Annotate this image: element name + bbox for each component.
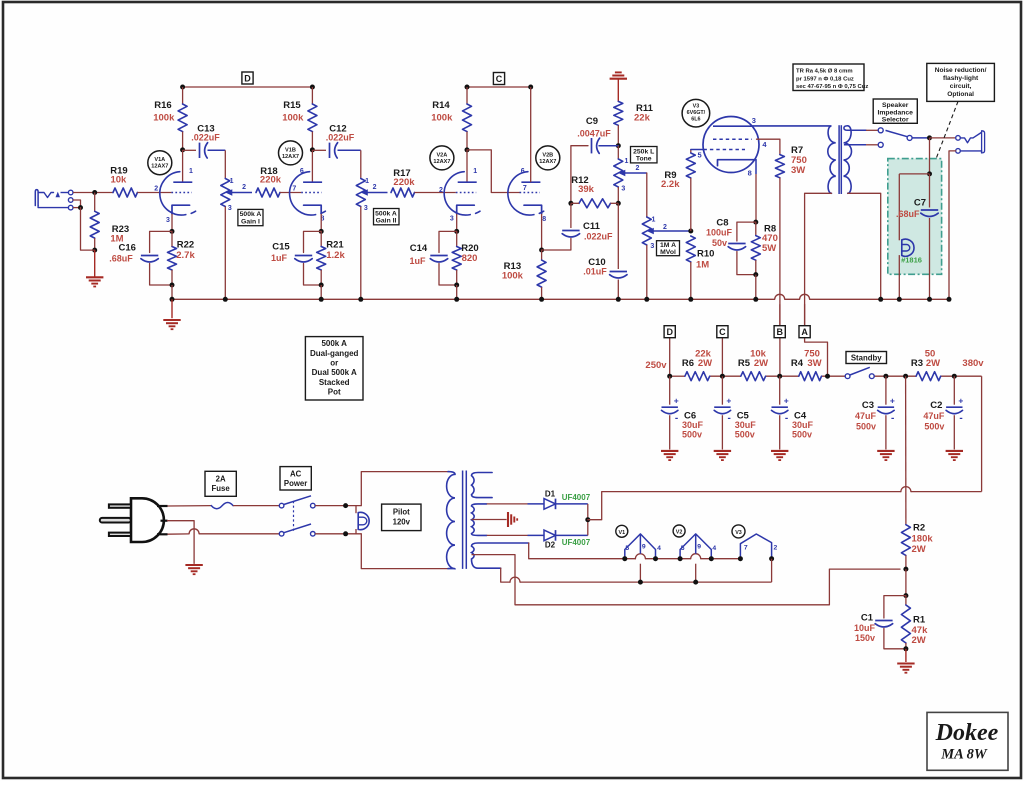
resistor R23 bbox=[94, 193, 96, 212]
resistor R12 bbox=[579, 199, 611, 208]
svg-text:500v: 500v bbox=[856, 422, 876, 432]
capacitor C12 bbox=[312, 149, 326, 151]
resistor R8 bbox=[755, 222, 757, 236]
svg-text:12AX7: 12AX7 bbox=[282, 154, 299, 160]
svg-text:3: 3 bbox=[364, 205, 368, 212]
label box Tone bbox=[631, 147, 658, 163]
transformer T2 core bbox=[838, 125, 840, 194]
wire B+ feed bbox=[588, 492, 901, 520]
wire D1 cathode to node bbox=[587, 504, 589, 520]
svg-text:C16: C16 bbox=[118, 243, 135, 254]
svg-text:Speaker: Speaker bbox=[882, 102, 909, 109]
node R22 bottom bbox=[170, 283, 175, 288]
node rectifier output bbox=[585, 517, 590, 522]
wire heater bottom lead to lower line bbox=[501, 568, 510, 582]
potentiometer 500k Gain II bbox=[356, 179, 365, 207]
switch AC power lower pole bbox=[279, 532, 284, 537]
svg-text:500k A: 500k A bbox=[375, 210, 397, 217]
node C7 lamp junction bbox=[927, 171, 932, 176]
svg-text:Dokee: Dokee bbox=[935, 720, 999, 746]
wire C7 column top bbox=[929, 138, 931, 174]
wire OT secondary return to bus bbox=[848, 193, 881, 299]
lamp 1816 bulb bbox=[902, 239, 914, 256]
node MVol wiper junction bbox=[688, 229, 693, 234]
node A label box bbox=[799, 326, 810, 338]
wire node B riser bbox=[779, 304, 781, 376]
node R8 bottom bbox=[753, 272, 758, 277]
svg-text:150v: 150v bbox=[855, 633, 875, 643]
svg-text:6L6: 6L6 bbox=[691, 117, 700, 123]
node R23 bottom bbox=[92, 248, 97, 253]
label box Pilot bbox=[382, 504, 421, 530]
svg-text:D2: D2 bbox=[545, 541, 556, 550]
svg-text:+: + bbox=[674, 396, 679, 406]
wire Tone wiper to MVol bbox=[646, 173, 648, 217]
svg-text:8: 8 bbox=[748, 169, 752, 178]
node R1 bottom bbox=[903, 646, 908, 651]
node C top-right bbox=[528, 85, 533, 90]
wire C rail bbox=[467, 86, 531, 88]
svg-text:30uF: 30uF bbox=[792, 420, 814, 430]
wire OT secondary top lead bbox=[844, 126, 866, 131]
svg-text:Pot: Pot bbox=[328, 387, 341, 396]
svg-text:V1: V1 bbox=[619, 530, 626, 536]
svg-text:1: 1 bbox=[189, 168, 193, 175]
label box title Dokee bbox=[927, 712, 1008, 770]
wire plug ground prong bbox=[168, 521, 195, 564]
svg-text:2: 2 bbox=[663, 224, 667, 231]
wire V3 grid to R9 bbox=[691, 149, 704, 151]
ground HV center tap bbox=[507, 512, 509, 527]
output jack sleeve contact bbox=[956, 149, 961, 154]
svg-text:2.7k: 2.7k bbox=[176, 250, 195, 261]
wire R7 to node B bbox=[779, 178, 781, 325]
svg-text:.01uF: .01uF bbox=[583, 266, 607, 276]
svg-text:2W: 2W bbox=[912, 635, 926, 646]
resistor R10 bbox=[686, 236, 695, 262]
node C label box bbox=[493, 73, 504, 85]
label box AC Power bbox=[280, 467, 311, 490]
wire V3 cathode down bbox=[755, 160, 757, 174]
svg-text:2: 2 bbox=[439, 187, 443, 194]
node V1B plate junction bbox=[310, 147, 315, 152]
svg-text:2A: 2A bbox=[216, 475, 226, 484]
svg-text:2: 2 bbox=[154, 186, 158, 193]
svg-text:D: D bbox=[666, 327, 673, 337]
resistor R17 bbox=[391, 188, 415, 197]
wire preamp ground bus bbox=[172, 298, 775, 300]
node bus junctions bbox=[170, 297, 175, 302]
svg-text:V2: V2 bbox=[676, 530, 683, 536]
node D label box bbox=[242, 72, 253, 84]
tube V1A triode bbox=[160, 172, 186, 215]
wire tip to input node bbox=[73, 192, 113, 194]
svg-text:100k: 100k bbox=[502, 271, 524, 282]
switch selector tap 4ohm bbox=[878, 142, 883, 147]
wire plug neutral with hop bbox=[168, 533, 190, 535]
heater V1 tent bbox=[625, 534, 656, 559]
wire rail to R2 bbox=[905, 376, 907, 525]
svg-text:500k A: 500k A bbox=[321, 339, 347, 348]
switch Standby bbox=[845, 374, 850, 379]
label box dual-ganged pot note bbox=[305, 337, 363, 400]
ground bus main bbox=[171, 299, 173, 318]
svg-text:.022uF: .022uF bbox=[326, 133, 355, 143]
capacitor C8 bbox=[737, 222, 756, 241]
svg-text:flashy-light: flashy-light bbox=[943, 75, 979, 82]
svg-text:2: 2 bbox=[242, 184, 246, 191]
tube V2B triode bbox=[508, 172, 534, 215]
svg-text:3: 3 bbox=[166, 217, 170, 224]
svg-text:Noise reduction/: Noise reduction/ bbox=[935, 67, 987, 74]
svg-text:1: 1 bbox=[473, 168, 477, 175]
wire ring to sleeve bbox=[73, 200, 81, 208]
wire to output jack bbox=[930, 137, 956, 139]
node R12 right junction bbox=[616, 201, 621, 206]
svg-text:R14: R14 bbox=[432, 100, 450, 111]
svg-text:180k: 180k bbox=[912, 534, 934, 545]
wire OT primary bottom to node A bbox=[805, 193, 832, 325]
ground R11 top bbox=[610, 78, 627, 80]
svg-text:C: C bbox=[719, 327, 726, 337]
svg-text:D: D bbox=[244, 73, 251, 83]
input jack J1 bbox=[35, 190, 38, 206]
svg-text:47uF: 47uF bbox=[855, 411, 877, 421]
svg-text:-: - bbox=[891, 413, 894, 424]
lamp pilot bbox=[355, 506, 357, 514]
svg-text:500v: 500v bbox=[924, 422, 944, 432]
capacitor C16 bbox=[150, 231, 172, 252]
svg-text:7: 7 bbox=[523, 185, 527, 192]
svg-text:500v: 500v bbox=[792, 430, 812, 440]
wire to PT primary bottom bbox=[361, 534, 448, 569]
svg-text:MVol: MVol bbox=[660, 249, 676, 256]
svg-text:V1A: V1A bbox=[154, 157, 165, 163]
wire V2A cathode down bbox=[456, 214, 458, 232]
resistor R1 bbox=[905, 596, 907, 605]
node C1 R1 top bbox=[903, 593, 908, 598]
resistor R11 bbox=[614, 101, 623, 125]
svg-text:.68uF: .68uF bbox=[896, 209, 920, 219]
node pilot top bbox=[343, 503, 348, 508]
svg-text:R16: R16 bbox=[154, 100, 171, 111]
svg-text:Impedance: Impedance bbox=[877, 109, 913, 116]
wire C13 to Gain I pot bbox=[224, 150, 226, 178]
wire node D riser bbox=[669, 338, 671, 377]
resistor R2 bbox=[901, 525, 910, 556]
svg-text:Tone: Tone bbox=[636, 156, 652, 163]
node C label box lower bbox=[717, 326, 728, 338]
label box Gain I bbox=[238, 209, 263, 225]
tube V3 6V6 bbox=[703, 117, 759, 173]
svg-text:R6: R6 bbox=[682, 358, 694, 369]
fuse F1 2A bbox=[211, 503, 233, 509]
svg-text:3: 3 bbox=[450, 216, 454, 223]
wire V1A cathode down bbox=[171, 214, 173, 232]
node jack ground junction bbox=[78, 205, 83, 210]
svg-text:1.2k: 1.2k bbox=[326, 250, 345, 261]
node B label box bbox=[774, 326, 785, 338]
tube V2A triode bbox=[444, 172, 470, 215]
resistor R4 bbox=[799, 372, 822, 381]
svg-text:50v: 50v bbox=[712, 238, 727, 248]
svg-text:30uF: 30uF bbox=[682, 420, 704, 430]
switch AC power link bbox=[293, 501, 295, 531]
switch selector common bbox=[907, 135, 912, 140]
svg-text:1M A: 1M A bbox=[660, 242, 676, 249]
transformer T1 core bbox=[462, 471, 464, 569]
svg-text:.022uF: .022uF bbox=[191, 133, 220, 143]
svg-text:circuit,: circuit, bbox=[950, 83, 972, 90]
svg-text:+: + bbox=[958, 396, 963, 406]
svg-text:C7: C7 bbox=[914, 198, 926, 209]
svg-text:V2B: V2B bbox=[542, 152, 553, 158]
ground input bbox=[94, 250, 96, 277]
svg-text:47uF: 47uF bbox=[923, 411, 945, 421]
wire R19 to V1A grid bbox=[137, 192, 171, 194]
svg-text:820: 820 bbox=[462, 253, 478, 264]
capacitor C7 bbox=[929, 174, 931, 208]
node V1B cathode junction bbox=[319, 229, 324, 234]
node C top-left bbox=[465, 85, 470, 90]
switch selector tap 8ohm bbox=[878, 128, 883, 133]
switch AC power upper pole bbox=[279, 503, 284, 508]
teal optional region bbox=[888, 159, 942, 275]
svg-text:C9: C9 bbox=[586, 116, 598, 127]
svg-text:3W: 3W bbox=[791, 165, 805, 176]
node V2A cathode junction bbox=[454, 229, 459, 234]
node V1A plate junction bbox=[180, 147, 185, 152]
svg-text:Dual-ganged: Dual-ganged bbox=[310, 349, 359, 358]
input jack tip contact bbox=[68, 190, 73, 195]
output jack tip contact bbox=[956, 136, 961, 141]
svg-text:or: or bbox=[330, 359, 338, 368]
wire to PT primary top bbox=[361, 472, 448, 506]
capacitor C2 bbox=[953, 376, 955, 405]
node R2 bottom bbox=[903, 567, 908, 572]
node output node bbox=[927, 135, 932, 140]
svg-text:10k: 10k bbox=[110, 175, 127, 186]
svg-text:2.2k: 2.2k bbox=[661, 179, 680, 190]
svg-text:D1: D1 bbox=[545, 490, 556, 499]
svg-text:100k: 100k bbox=[282, 113, 304, 124]
resistor R15 bbox=[311, 87, 313, 104]
svg-text:-: - bbox=[675, 413, 678, 424]
svg-text:V2A: V2A bbox=[436, 152, 447, 158]
svg-text:R4: R4 bbox=[791, 358, 804, 369]
capacitor C10 bbox=[617, 203, 619, 269]
resistor R18 bbox=[256, 188, 280, 197]
svg-text:C2: C2 bbox=[930, 400, 942, 411]
wire V1B cathode down bbox=[320, 214, 322, 232]
svg-text:9: 9 bbox=[697, 543, 701, 550]
svg-text:2W: 2W bbox=[698, 358, 712, 369]
node D label box lower bbox=[664, 326, 675, 338]
node R20 bottom bbox=[454, 283, 459, 288]
resistor R7 bbox=[775, 155, 784, 178]
svg-text:380v: 380v bbox=[962, 358, 984, 369]
svg-text:+: + bbox=[726, 396, 731, 406]
svg-text:12AX7: 12AX7 bbox=[151, 164, 168, 170]
wire V2A plate to V2B grid direct coupling bbox=[467, 150, 520, 193]
svg-text:UF4007: UF4007 bbox=[562, 538, 591, 547]
label box Noise reduction optional bbox=[927, 63, 995, 101]
wire OT secondary mid tap bbox=[844, 144, 866, 146]
node input junction bbox=[92, 190, 97, 195]
wire D2 cathode to node bbox=[587, 520, 589, 536]
svg-text:2W: 2W bbox=[754, 358, 768, 369]
svg-text:Fuse: Fuse bbox=[211, 484, 230, 493]
input jack ring contact bbox=[68, 198, 73, 203]
tube V1B triode bbox=[290, 172, 316, 215]
svg-text:4: 4 bbox=[712, 545, 716, 552]
svg-text:.0047uF: .0047uF bbox=[577, 129, 611, 139]
wire node A riser and jog bbox=[805, 304, 828, 376]
svg-text:100uF: 100uF bbox=[706, 227, 733, 237]
svg-text:MA 8W: MA 8W bbox=[940, 747, 988, 763]
diode D1 bbox=[487, 503, 528, 505]
svg-text:3: 3 bbox=[228, 205, 232, 212]
resistor R22 bbox=[168, 247, 177, 271]
wire jack ground down bbox=[81, 208, 95, 251]
potentiometer 1M MVol bbox=[642, 217, 651, 245]
svg-text:3: 3 bbox=[650, 243, 654, 250]
svg-text:120v: 120v bbox=[393, 517, 411, 526]
wire junction to lamp branch bbox=[899, 173, 929, 175]
svg-text:C1: C1 bbox=[861, 613, 874, 624]
wire HV center tap bbox=[472, 519, 507, 521]
potentiometer 500k Gain I bbox=[221, 179, 230, 207]
wire V2B cathode down bbox=[541, 214, 543, 250]
capacitor C3 bbox=[885, 376, 887, 405]
svg-text:1: 1 bbox=[365, 178, 369, 185]
svg-text:220k: 220k bbox=[393, 177, 415, 188]
resistor R6 bbox=[685, 372, 710, 381]
node R21 bottom bbox=[319, 283, 324, 288]
svg-text:2: 2 bbox=[774, 544, 778, 551]
svg-text:V3: V3 bbox=[735, 530, 742, 536]
input jack sleeve contact bbox=[68, 205, 73, 210]
svg-text:sec 47-67-95 n Φ 0,75 Cuz: sec 47-67-95 n Φ 0,75 Cuz bbox=[796, 84, 868, 90]
wire switch to junctions bbox=[315, 505, 361, 507]
capacitor C1 bbox=[884, 596, 906, 618]
svg-text:Gain I: Gain I bbox=[241, 218, 260, 225]
node V3 cathode junction bbox=[753, 220, 758, 225]
svg-text:Dual 500k A: Dual 500k A bbox=[312, 368, 357, 377]
node rail junctions bbox=[667, 374, 672, 379]
svg-text:2: 2 bbox=[373, 184, 377, 191]
svg-text:5: 5 bbox=[698, 151, 702, 160]
node V2B cathode junction bbox=[539, 248, 544, 253]
svg-text:7: 7 bbox=[292, 186, 296, 193]
svg-text:TR Ra 4,5k Ø 8 cmm: TR Ra 4,5k Ø 8 cmm bbox=[796, 68, 853, 74]
svg-text:3: 3 bbox=[752, 116, 756, 125]
capacitor C5 bbox=[721, 376, 723, 405]
svg-text:3: 3 bbox=[621, 186, 625, 193]
svg-text:100k: 100k bbox=[153, 113, 175, 124]
label box Fuse bbox=[205, 471, 236, 496]
svg-text:C15: C15 bbox=[272, 242, 290, 253]
svg-text:4: 4 bbox=[657, 545, 661, 552]
svg-text:22k: 22k bbox=[634, 113, 651, 124]
wire upper heater line hops bbox=[635, 554, 645, 559]
svg-text:#1816: #1816 bbox=[901, 255, 922, 264]
node D top-right bbox=[310, 85, 315, 90]
label box Speaker Impedance Selector bbox=[873, 99, 917, 123]
svg-text:UF4007: UF4007 bbox=[562, 493, 591, 502]
wire C12 to Gain II pot bbox=[360, 150, 362, 178]
svg-text:6: 6 bbox=[521, 168, 525, 175]
svg-text:1uF: 1uF bbox=[271, 253, 288, 263]
wire jack sleeve to bus bbox=[949, 151, 956, 299]
resistor R19 bbox=[113, 188, 137, 197]
svg-text:+: + bbox=[890, 396, 895, 406]
ground mains safety bbox=[185, 564, 202, 566]
wire selector to C7 node bbox=[912, 137, 929, 139]
svg-text:30uF: 30uF bbox=[735, 420, 757, 430]
svg-text:V1B: V1B bbox=[285, 147, 296, 153]
svg-text:R5: R5 bbox=[738, 358, 751, 369]
svg-text:A: A bbox=[801, 327, 808, 337]
svg-text:2W: 2W bbox=[926, 358, 940, 369]
svg-text:R10: R10 bbox=[697, 248, 714, 259]
resistor R3 bbox=[916, 372, 941, 381]
wire V3 screen to R7 bbox=[757, 139, 780, 154]
svg-text:1: 1 bbox=[230, 178, 234, 185]
resistor R21 bbox=[320, 231, 322, 246]
wire heater top lead to upper line bbox=[529, 543, 636, 559]
heater V3 tent bbox=[740, 534, 771, 559]
svg-text:500v: 500v bbox=[735, 430, 755, 440]
svg-text:AC: AC bbox=[290, 469, 302, 478]
potentiometer 250k Tone bbox=[617, 146, 619, 159]
node D top-left bbox=[180, 85, 185, 90]
svg-text:.022uF: .022uF bbox=[584, 232, 613, 242]
wire heater CT to bias node bbox=[515, 555, 900, 605]
node pilot bottom bbox=[343, 531, 348, 536]
resistor R16 bbox=[182, 87, 184, 104]
svg-text:Gain II: Gain II bbox=[376, 218, 397, 225]
transformer T1 winding heater bbox=[472, 543, 529, 568]
svg-text:C14: C14 bbox=[410, 243, 428, 254]
resistor R9 bbox=[690, 150, 692, 154]
label box TR specs bbox=[793, 64, 864, 91]
svg-text:B: B bbox=[776, 327, 783, 337]
switch selector blade bbox=[886, 130, 908, 136]
wire V2B plate to C rail bbox=[530, 87, 532, 182]
svg-text:8: 8 bbox=[542, 216, 546, 223]
label box MVol bbox=[657, 241, 680, 256]
svg-text:39k: 39k bbox=[578, 184, 595, 195]
svg-text:5: 5 bbox=[681, 545, 685, 552]
svg-text:-: - bbox=[959, 413, 962, 424]
wire cathode to bus bbox=[171, 285, 173, 299]
node C9-R11 junction bbox=[616, 143, 621, 148]
resistor R20 bbox=[456, 231, 458, 246]
svg-text:1M: 1M bbox=[696, 260, 709, 271]
svg-text:2: 2 bbox=[635, 165, 639, 172]
wire plate lead V1A bbox=[182, 150, 184, 182]
wire dashed pointer bbox=[931, 101, 958, 172]
svg-text:12AX7: 12AX7 bbox=[433, 159, 450, 165]
svg-text:10uF: 10uF bbox=[854, 623, 876, 633]
capacitor C9 bbox=[599, 145, 618, 147]
svg-text:12AX7: 12AX7 bbox=[539, 159, 556, 165]
svg-text:3W: 3W bbox=[807, 358, 821, 369]
transformer T1 winding aux bbox=[472, 473, 493, 498]
capacitor C4 bbox=[779, 376, 781, 405]
resistor R13 bbox=[541, 250, 543, 260]
